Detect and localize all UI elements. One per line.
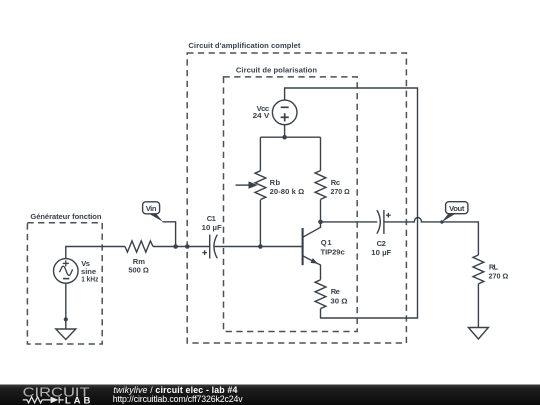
svg-text:Q1: Q1 [321,238,333,247]
svg-text:Circuit d'amplification comple: Circuit d'amplification complet [188,41,300,50]
svg-text:10 µF: 10 µF [202,223,222,232]
svg-text:Rm: Rm [133,257,145,266]
svg-text:http://circuitlab.com/cff7326k: http://circuitlab.com/cff7326k2c24v [113,394,244,404]
svg-text:Re: Re [331,287,340,296]
svg-text:Circuit de polarisation: Circuit de polarisation [236,65,317,74]
svg-text:10 µF: 10 µF [371,248,391,257]
svg-text:20-80 k Ω: 20-80 k Ω [270,187,305,196]
svg-text:Vin: Vin [146,204,157,213]
svg-text:30 Ω: 30 Ω [330,296,347,305]
svg-text:Rb: Rb [270,178,281,187]
svg-text:C1: C1 [207,214,217,223]
svg-text:500 Ω: 500 Ω [128,266,149,275]
svg-text:Générateur fonction: Générateur fonction [30,212,101,221]
svg-text:TIP29c: TIP29c [321,248,345,257]
svg-text:Vout: Vout [449,204,465,213]
svg-text:1 kHz: 1 kHz [81,275,98,284]
svg-text:Rc: Rc [331,178,340,187]
svg-text:C2: C2 [377,239,386,248]
svg-text:RL: RL [489,262,499,271]
svg-text:LAB: LAB [65,396,91,405]
svg-text:24 V: 24 V [253,111,271,120]
svg-text:270 Ω: 270 Ω [489,271,509,280]
svg-text:270 Ω: 270 Ω [331,187,350,196]
